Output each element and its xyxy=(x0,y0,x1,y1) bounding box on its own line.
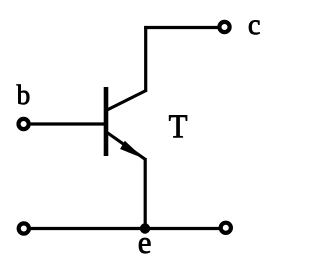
terminal c xyxy=(219,22,229,32)
label T xyxy=(169,115,187,137)
wire base xyxy=(31,122,105,125)
transistor T emitter arrow xyxy=(121,142,142,157)
transistor T emitter diagonal xyxy=(107,133,146,160)
wire collector vertical xyxy=(144,26,147,92)
transistor T base bar xyxy=(104,87,109,156)
wire bottom rail xyxy=(31,227,220,230)
label b xyxy=(17,85,30,105)
label c xyxy=(249,20,260,34)
wire collector horizontal xyxy=(144,26,218,29)
node e junction xyxy=(140,223,150,233)
label e xyxy=(139,238,150,253)
wire emitter vertical xyxy=(144,158,147,228)
terminal bottom-left xyxy=(19,223,29,233)
transistor T collector diagonal xyxy=(107,91,146,111)
terminal bottom-right xyxy=(221,223,231,233)
terminal b xyxy=(19,119,29,129)
